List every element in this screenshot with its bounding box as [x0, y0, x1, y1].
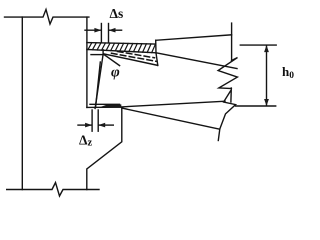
beam right end face lower: [230, 88, 232, 102]
dim line Delta-z right with arrow: [99, 124, 113, 126]
beam end face stub: [102, 50, 104, 55]
h0 dimension line: [266, 46, 268, 105]
break zigzag upper: [218, 58, 237, 89]
bundle dashed line 2: [112, 53, 157, 61]
svg-text:Δs: Δs: [110, 6, 124, 21]
beam top edge right: [156, 35, 232, 41]
beam bottom edge original: [121, 101, 225, 107]
bearing top line: [90, 103, 120, 105]
beam top bearing line: [91, 54, 104, 56]
arrow Delta-z left: [85, 123, 92, 128]
svg-text:φ: φ: [111, 65, 120, 81]
beam right end face upper: [231, 23, 233, 61]
wall left edge: [21, 17, 23, 189]
arrow Delta-z right: [98, 123, 105, 128]
wall top edge with break: [5, 10, 89, 25]
beam bottom edge rotated: [122, 108, 220, 129]
beam end face rotated: [95, 55, 103, 108]
bearing bottom line: [87, 106, 122, 108]
rotated beam top edge: [156, 53, 237, 69]
screed hatch lines: [88, 43, 156, 53]
arrow Delta-s right: [109, 28, 116, 33]
wall lower step outline: [87, 108, 122, 190]
wall right edge (upper): [86, 17, 88, 107]
dim line Delta-s left with arrow: [85, 29, 101, 31]
h0 bottom extension line: [236, 105, 276, 107]
screed hatch strip outline: [87, 43, 156, 44]
bundle dashed line 1: [118, 52, 155, 58]
dim ticks Delta-z: [91, 110, 93, 131]
arrow h0 down: [264, 99, 269, 106]
crack line at pivot: [104, 54, 120, 65]
bundle bottom line: [104, 54, 158, 66]
arrow h0 up: [264, 45, 269, 52]
break zigzag lower: [218, 91, 235, 141]
h0 top extension line: [240, 44, 276, 46]
bearing wedge fill: [99, 104, 121, 107]
dim line Delta-z left with arrow: [78, 124, 91, 126]
dim line Delta-s right with arrow: [110, 29, 122, 31]
wall bottom edge with break: [7, 183, 99, 197]
beam end face original (short): [96, 62, 101, 107]
dim ticks Delta-s: [100, 24, 102, 43]
arrow Delta-s left: [94, 28, 101, 33]
bundle right edge: [156, 54, 158, 66]
